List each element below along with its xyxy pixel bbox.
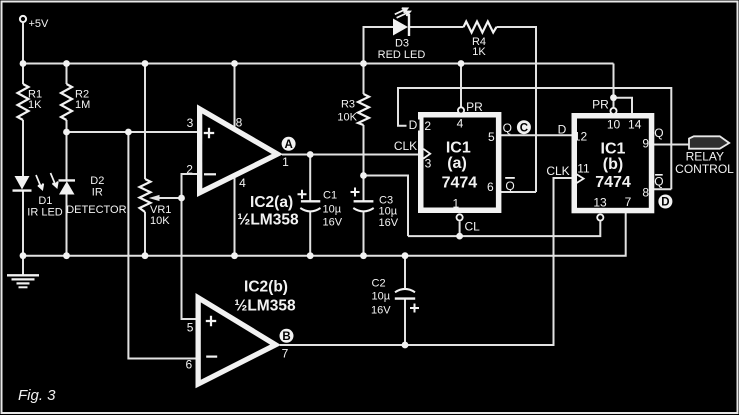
wire CL(a) stub — [459, 221, 461, 236]
wire C1 bottom stub — [309, 211, 311, 256]
junction +5V / R2 — [63, 60, 70, 67]
svg-text:CL: CL — [465, 220, 481, 234]
wire D1 cathode to ground bus — [22, 191, 24, 256]
junction R2 / D2 / pin 3 — [63, 129, 70, 136]
junction node B / C2 — [402, 342, 409, 349]
svg-text:IR: IR — [92, 187, 103, 199]
svg-text:4: 4 — [457, 117, 464, 131]
svg-text:1: 1 — [453, 197, 460, 211]
resistor R1 — [18, 84, 29, 120]
svg-text:7: 7 — [625, 195, 632, 209]
diode D3 red LED — [393, 14, 409, 36]
svg-text:PR: PR — [466, 100, 483, 114]
svg-text:16V: 16V — [323, 217, 343, 229]
svg-text:10µ: 10µ — [323, 204, 342, 216]
wire node D2 branch to pin 6 — [128, 132, 199, 359]
IC1(a) CL bubble pin 1 — [457, 214, 463, 220]
svg-text:D: D — [409, 118, 418, 132]
svg-text:6: 6 — [185, 357, 192, 371]
svg-text:Q: Q — [505, 179, 514, 193]
svg-text:½LM358: ½LM358 — [237, 212, 299, 229]
potentiometer VR1 — [140, 179, 151, 212]
IC1(b) CLK chevron pin 11 — [576, 174, 584, 184]
svg-text:C3: C3 — [379, 195, 393, 207]
wire pin 4 supply — [234, 177, 236, 256]
node A — [282, 137, 296, 151]
junction ground / C2 — [402, 252, 409, 259]
svg-text:10K: 10K — [337, 112, 357, 124]
wire CL line — [408, 221, 600, 236]
wire PR(a) drop — [460, 64, 462, 107]
junction ground / D1 — [20, 252, 27, 259]
IC1(b) PR bubble pin 10 — [610, 108, 616, 114]
op-amp U IC2(b) — [196, 293, 282, 388]
wire R3 bottom to node — [363, 125, 365, 176]
svg-text:CLK: CLK — [394, 139, 417, 153]
svg-text:14: 14 — [628, 117, 642, 131]
svg-text:8: 8 — [236, 115, 243, 129]
junction node to pin 6 — [125, 129, 132, 136]
wire R2 bottom — [66, 120, 68, 132]
svg-text:12: 12 — [574, 129, 588, 143]
wire R1 top — [22, 64, 24, 85]
resistor R2 — [61, 84, 72, 120]
wire PR(b) drop from +5V bus — [613, 64, 615, 108]
IC1(a) D label — [407, 120, 420, 131]
svg-text:11: 11 — [577, 161, 590, 175]
svg-text:1K: 1K — [472, 46, 486, 58]
capacitor C2 — [395, 289, 419, 313]
junction PR(b) / pin 14 — [610, 94, 617, 101]
wire C1 top stub — [309, 155, 311, 202]
junction ground / pin 4 — [231, 252, 238, 259]
wire node B to CLK(b) — [280, 178, 572, 345]
wire +5V stub — [22, 23, 24, 64]
svg-text:1K: 1K — [28, 99, 42, 111]
svg-text:Q: Q — [654, 174, 663, 188]
svg-text:PR: PR — [592, 98, 609, 112]
wire ground stub — [22, 256, 24, 275]
resistor R4 — [464, 22, 497, 33]
svg-text:(a): (a) — [447, 155, 467, 172]
ground — [7, 275, 39, 287]
svg-text:10K: 10K — [150, 215, 170, 227]
relay control tag — [675, 136, 734, 176]
wire ground bus — [23, 213, 626, 256]
wire +5V bus — [23, 63, 614, 65]
IC1(a) Q-bar label — [505, 178, 515, 193]
svg-text:D: D — [558, 122, 567, 136]
node D — [658, 195, 672, 209]
svg-text:5: 5 — [488, 130, 495, 144]
svg-text:8: 8 — [642, 186, 649, 200]
svg-text:CONTROL: CONTROL — [675, 162, 734, 176]
wire D(a) input from Q-bar(b) — [398, 88, 671, 189]
svg-text:DETECTOR: DETECTOR — [66, 204, 126, 216]
capacitor C1 — [298, 190, 321, 212]
IC1(a) CLK chevron pin 3 — [423, 149, 430, 159]
junction +5V / PR(a) — [458, 60, 465, 67]
IC U1b 7474 box — [572, 113, 655, 213]
junction +5V / pin 8 — [231, 60, 238, 67]
svg-text:1: 1 — [282, 155, 289, 169]
svg-text:CLK: CLK — [546, 164, 569, 178]
junction node A / C1 — [307, 151, 314, 158]
svg-text:9: 9 — [642, 136, 649, 150]
IC1(b) Q-bar label — [654, 174, 663, 188]
svg-text:3: 3 — [425, 157, 432, 171]
svg-text:16V: 16V — [371, 304, 391, 316]
wire Q-bar(a) stub — [501, 191, 536, 193]
svg-text:D: D — [661, 197, 669, 209]
wire D3 cathode to R4 — [409, 26, 464, 28]
junction +5V / R1 — [20, 60, 27, 67]
svg-text:C: C — [520, 122, 528, 134]
svg-text:½LM358: ½LM358 — [234, 297, 296, 314]
junction VR1 wiper — [178, 195, 185, 202]
wire R1 bottom to D1 — [22, 120, 24, 176]
svg-text:Q: Q — [654, 126, 663, 140]
wire C2 bottom stub — [404, 299, 406, 345]
junction ground / C1 — [307, 252, 314, 259]
svg-text:D2: D2 — [90, 175, 104, 187]
wire PR(b) node to pin 14 — [614, 98, 633, 115]
wire Q(a) to D(b) — [501, 134, 572, 136]
svg-text:IC1: IC1 — [601, 140, 626, 157]
svg-text:+5V: +5V — [29, 18, 50, 30]
svg-text:1M: 1M — [75, 99, 90, 111]
svg-text:7: 7 — [282, 347, 289, 361]
svg-text:C1: C1 — [323, 190, 337, 202]
wire R4 to Q-bar IC1(a) — [497, 27, 537, 192]
wire Q(b) to relay tag — [654, 144, 689, 146]
svg-text:IR LED: IR LED — [27, 207, 63, 219]
D1 emission arrows toward D2 — [36, 173, 58, 189]
junction +5V / VR1 — [142, 60, 149, 67]
svg-text:10: 10 — [607, 117, 621, 131]
svg-text:6: 6 — [487, 180, 494, 194]
svg-text:10µ: 10µ — [372, 291, 391, 303]
node B — [280, 329, 294, 343]
wire D2 top stub — [66, 132, 68, 180]
IC U1a 7474 box — [418, 112, 501, 213]
wire D2 bottom to ground bus — [66, 195, 68, 256]
wire Q-bar(b) stub — [654, 188, 671, 190]
svg-text:RED LED: RED LED — [378, 49, 426, 61]
svg-text:IC2(b): IC2(b) — [244, 279, 288, 296]
svg-text:7474: 7474 — [442, 175, 478, 192]
wire D3 anode to +5V bus and R3 — [364, 27, 394, 94]
wire VR1 bottom to ground bus — [144, 212, 146, 256]
wire node D2 to pin 3 — [67, 131, 200, 133]
wire C3 top stub — [363, 176, 365, 202]
wire pin 8 supply — [234, 64, 236, 129]
diode D2 IR detector — [59, 180, 76, 194]
capacitor C3 — [351, 188, 374, 212]
wire R3/C3 node to CL line — [364, 176, 409, 237]
IC1(b) CL bubble pin 13 — [597, 214, 603, 220]
svg-text:7474: 7474 — [595, 174, 631, 191]
+5V terminal — [20, 16, 26, 22]
svg-text:Q: Q — [503, 121, 512, 135]
op-amp U IC2(a) — [197, 104, 283, 197]
wire R2 top — [66, 64, 68, 85]
resistor R3 — [358, 94, 369, 125]
junction ground / C3 — [360, 252, 367, 259]
junction +5V / D3 / R3 — [360, 60, 367, 67]
potentiometer VR1 wiper arrow — [149, 195, 182, 201]
svg-text:IC2(a): IC2(a) — [250, 194, 293, 211]
junction CL line / CL(a) — [456, 233, 463, 240]
wire C3 bottom stub — [363, 211, 365, 256]
junction R3 / C3 / CL — [360, 172, 367, 179]
D3 emission arrows — [395, 8, 410, 18]
junction ground / VR1 — [142, 252, 149, 259]
svg-text:D1: D1 — [38, 195, 52, 207]
svg-text:5: 5 — [187, 320, 194, 334]
svg-text:C2: C2 — [372, 278, 386, 290]
svg-text:3: 3 — [187, 116, 194, 130]
svg-text:IC1: IC1 — [446, 139, 471, 156]
junction ground / D2 — [63, 252, 70, 259]
node C — [517, 120, 531, 134]
svg-text:R3: R3 — [341, 99, 355, 111]
svg-text:(b): (b) — [603, 156, 623, 173]
svg-text:4: 4 — [239, 176, 246, 190]
svg-text:A: A — [284, 139, 292, 151]
wire VR1 wiper net to pin 2 and pin 5 — [182, 174, 200, 319]
wire node A to CLK IC1(a) — [282, 154, 419, 156]
svg-text:13: 13 — [593, 195, 607, 209]
wire VR1 top — [144, 64, 146, 180]
wire C2 top stub — [404, 256, 406, 289]
svg-text:B: B — [282, 331, 290, 343]
svg-text:2: 2 — [186, 162, 193, 176]
svg-text:Fig. 3: Fig. 3 — [18, 387, 56, 404]
svg-text:D3: D3 — [395, 37, 409, 49]
diode D1 IR LED — [13, 176, 32, 191]
svg-text:2: 2 — [424, 119, 431, 133]
svg-text:10µ: 10µ — [379, 206, 398, 218]
IC1(a) PR bubble pin 4 — [458, 107, 464, 113]
svg-text:16V: 16V — [379, 217, 399, 229]
